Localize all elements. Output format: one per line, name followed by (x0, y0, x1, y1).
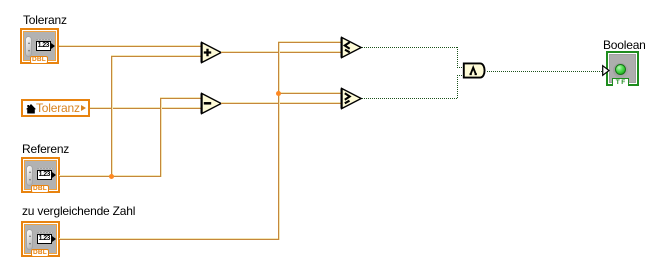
wire down to And top input (457, 47, 458, 67)
house icon (26, 104, 36, 114)
wire Subtract out -> GreaterEqual bottom input (221, 102, 341, 104)
wire horizontal Referenz -> Subtract top input (160, 97, 201, 99)
wire Referenz out (59, 175, 162, 177)
numeric control zu vergleichende Zahl (DBL terminal) (21, 221, 60, 257)
label Referenz (22, 143, 69, 156)
wire into And top input (457, 67, 463, 68)
junction on zahl wire (276, 91, 281, 96)
wire zahl -> LessEqual top input (278, 41, 341, 43)
numeric control Toleranz (DBL terminal) (20, 28, 59, 64)
Boolean indicator terminal (606, 51, 639, 86)
wire vertical branch Referenz -> Add (111, 55, 113, 177)
output arrow glyph (81, 105, 86, 111)
wire GreaterEqual out (boolean) (362, 98, 457, 99)
label Boolean (603, 39, 646, 52)
wire Add out -> LessEqual bottom input (221, 51, 341, 53)
Boolean input arrow (602, 65, 610, 76)
local variable Toleranz (21, 99, 90, 117)
wire LessEqual out (boolean) (362, 47, 457, 48)
wire horizontal Referenz -> Add bottom input (111, 55, 201, 57)
op Add (+) (200, 41, 223, 64)
comparison GreaterEqual (340, 87, 363, 110)
gate And (462, 62, 488, 79)
wire zu vergleichende Zahl out (59, 238, 280, 240)
label Toleranz (control) (23, 14, 67, 27)
LED green (615, 64, 626, 75)
LED socket (613, 63, 628, 78)
wire Toleranz -> Add top input (59, 45, 201, 47)
numeric control Referenz (DBL terminal) (21, 157, 60, 193)
wire vertical Referenz -> Subtract (160, 97, 162, 177)
wire up to And bottom input (457, 75, 458, 98)
TF tab (612, 78, 629, 86)
comparison LessEqual (340, 36, 363, 59)
wire into And bottom input (457, 75, 463, 76)
wire zahl -> GreaterEqual top input (278, 92, 341, 94)
op Subtract (-) (200, 92, 223, 115)
label zu vergleichende Zahl (22, 205, 135, 218)
wire And out -> Boolean indicator (487, 71, 602, 72)
junction on Referenz wire (109, 174, 114, 179)
wire vertical zahl up (278, 41, 280, 240)
wire local Toleranz -> Subtract bottom input (90, 107, 201, 109)
